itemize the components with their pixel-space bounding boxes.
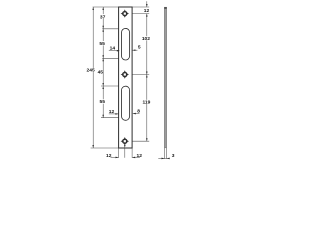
extension line slot1 top bbox=[102, 28, 118, 30]
svg-text:12: 12 bbox=[136, 153, 142, 159]
slot 1 (upper latch cutout) bbox=[122, 28, 130, 60]
245 bottom arrow down bbox=[92, 145, 94, 148]
dim chain right 12 upper stub bbox=[146, 1, 148, 7]
svg-text:12: 12 bbox=[106, 153, 112, 159]
screw hole symbol 2 bbox=[121, 70, 129, 78]
45 top arrow up bbox=[102, 58, 104, 61]
extension line slot1 bottom bbox=[102, 57, 118, 59]
extension line top (plate top, left side) bbox=[93, 6, 119, 8]
svg-text:5: 5 bbox=[138, 45, 141, 51]
dim chain 37-55-45-55 vertical line bbox=[102, 7, 104, 118]
plate outline front view bbox=[119, 7, 133, 148]
svg-text:119: 119 bbox=[142, 100, 150, 106]
white gaps behind texts on lines bbox=[87, 14, 150, 104]
55a top arrow up bbox=[102, 29, 104, 32]
dim line bottom 12 right bbox=[132, 156, 140, 158]
102 top arrow up bbox=[146, 14, 148, 17]
dim line bottom 12 left bbox=[111, 156, 119, 158]
extension line plate bottom (245 chain) bbox=[91, 147, 119, 149]
extension stub side bar left bbox=[164, 148, 166, 159]
55b top arrow up bbox=[102, 86, 104, 89]
svg-text:102: 102 bbox=[142, 36, 150, 42]
svg-text:45: 45 bbox=[98, 69, 104, 75]
svg-text:37: 37 bbox=[100, 15, 106, 21]
svg-text:55: 55 bbox=[99, 99, 105, 105]
screw hole symbol 3 bbox=[121, 137, 129, 145]
arrowheads bbox=[92, 4, 169, 159]
side view bar bbox=[164, 7, 166, 148]
svg-text:245: 245 bbox=[87, 68, 95, 74]
3 right arrow left bbox=[167, 158, 170, 160]
extension stub plate bottom right bbox=[131, 148, 133, 158]
37 top arrow up bbox=[102, 7, 104, 10]
dim line 14 horizontal bbox=[109, 50, 120, 52]
extension line hole1 right bbox=[129, 13, 149, 15]
svg-text:3: 3 bbox=[172, 153, 175, 159]
dim chain 245 vertical line bbox=[92, 7, 94, 148]
dimension texts bbox=[87, 8, 175, 159]
slot 2 (lower cutout) bbox=[122, 86, 130, 120]
3 left arrow right bbox=[162, 158, 165, 160]
14 arrow right bbox=[117, 50, 120, 52]
12 slot2 arrow right bbox=[115, 113, 118, 115]
119 bottom arrow down bbox=[146, 138, 148, 141]
extension line slot2 top bbox=[101, 85, 119, 87]
centerline hole3 down bbox=[124, 145, 126, 158]
extension line slot2 bottom bbox=[101, 117, 119, 119]
8 arrow left bbox=[133, 113, 136, 115]
svg-text:12: 12 bbox=[144, 8, 150, 14]
extension line top right (plate top to right chain) bbox=[132, 6, 149, 8]
svg-text:55: 55 bbox=[99, 41, 105, 47]
svg-text:8: 8 bbox=[137, 109, 140, 115]
center arrow down at plate bottom bbox=[124, 145, 126, 148]
102 bottom arrow down bbox=[146, 72, 148, 75]
dim line 5 horizontal bbox=[132, 49, 137, 51]
dim chain right 102-119 vertical line bbox=[146, 14, 148, 142]
extension line hole2 right bbox=[129, 74, 149, 76]
dim line 8 horizontal bbox=[133, 113, 140, 115]
55a bottom arrow down bbox=[102, 55, 104, 58]
svg-text:14: 14 bbox=[110, 46, 116, 52]
extension stub side bar right bbox=[166, 148, 168, 159]
5 arrow left bbox=[132, 49, 135, 51]
extension stub plate bottom left bbox=[118, 148, 120, 158]
extension line hole3 right bbox=[129, 140, 149, 142]
dim line 12 slot2 horizontal bbox=[109, 113, 119, 115]
bottom 12 left arrow right bbox=[116, 157, 119, 159]
37 bottom arrow down bbox=[102, 26, 104, 29]
svg-text:12: 12 bbox=[109, 109, 115, 115]
screw hole symbol 1 bbox=[121, 9, 129, 17]
45 bottom arrow down bbox=[102, 83, 104, 86]
119 top arrow up bbox=[146, 75, 148, 78]
dim line 3 horizontal bbox=[158, 157, 169, 159]
bottom 12 right arrow left bbox=[132, 157, 135, 159]
245 top arrow up bbox=[92, 7, 94, 10]
right 12 arrow down (above) bbox=[146, 4, 148, 7]
55b bottom arrow down bbox=[102, 115, 104, 118]
